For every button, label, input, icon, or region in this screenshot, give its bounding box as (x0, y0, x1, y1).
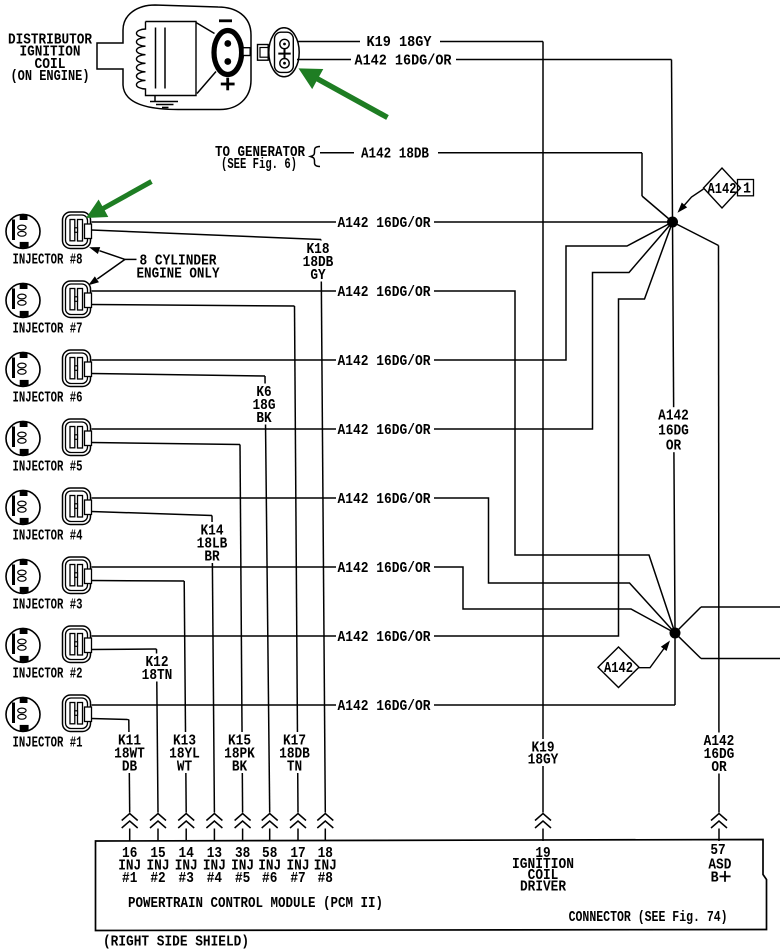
svg-text:INJECTOR #4: INJECTOR #4 (13, 529, 83, 545)
svg-text:(RIGHT SIDE SHIELD): (RIGHT SIDE SHIELD) (103, 934, 249, 950)
svg-text:A142: A142 (604, 661, 633, 677)
svg-text:BK: BK (232, 760, 248, 776)
svg-text:18TN: 18TN (142, 668, 173, 684)
svg-text:INJECTOR #2: INJECTOR #2 (13, 667, 83, 683)
svg-text:(SEE Fig. 6): (SEE Fig. 6) (221, 157, 297, 173)
svg-text:A142 16DG/OR: A142 16DG/OR (338, 216, 431, 232)
svg-text:A142: A142 (708, 182, 737, 198)
svg-text:A142 16DG/OR: A142 16DG/OR (338, 354, 431, 370)
svg-text:INJECTOR #6: INJECTOR #6 (13, 391, 83, 407)
svg-text:(ON ENGINE): (ON ENGINE) (11, 69, 90, 85)
svg-text:INJECTOR #7: INJECTOR #7 (13, 322, 83, 338)
svg-text:A142 16DG/OR: A142 16DG/OR (338, 492, 431, 508)
svg-text:#6: #6 (262, 871, 277, 887)
svg-text:INJECTOR #5: INJECTOR #5 (13, 460, 83, 476)
svg-text:INJECTOR #8: INJECTOR #8 (13, 253, 83, 269)
svg-text:OR: OR (711, 760, 727, 776)
svg-text:A142 18DB: A142 18DB (361, 146, 429, 162)
svg-text:K19 18GY: K19 18GY (367, 35, 432, 51)
svg-text:16DG: 16DG (658, 424, 689, 440)
svg-text:18GY: 18GY (528, 753, 559, 769)
svg-text:INJECTOR #1: INJECTOR #1 (13, 736, 83, 752)
svg-text:ENGINE ONLY: ENGINE ONLY (137, 266, 220, 282)
svg-text:A142 16DG/OR: A142 16DG/OR (338, 561, 431, 577)
svg-text:#8: #8 (318, 871, 333, 887)
svg-text:CONNECTOR (SEE Fig. 74): CONNECTOR (SEE Fig. 74) (569, 910, 728, 926)
svg-text:#1: #1 (122, 871, 138, 887)
svg-text:#4: #4 (207, 871, 223, 887)
svg-text:A142 16DG/OR: A142 16DG/OR (338, 285, 431, 301)
svg-text:POWERTRAIN CONTROL MODULE (PCM: POWERTRAIN CONTROL MODULE (PCM II) (128, 896, 383, 912)
svg-text:GY: GY (310, 268, 326, 284)
svg-text:TN: TN (287, 760, 302, 776)
svg-text:#7: #7 (290, 871, 305, 887)
svg-text:#5: #5 (235, 871, 250, 887)
svg-text:INJECTOR #3: INJECTOR #3 (13, 598, 83, 614)
svg-text:A142 16DG/OR: A142 16DG/OR (338, 423, 431, 439)
svg-text:DRIVER: DRIVER (520, 879, 566, 895)
svg-text:A142: A142 (658, 409, 689, 425)
svg-text:BR: BR (204, 550, 220, 566)
svg-text:A142 16DG/OR: A142 16DG/OR (355, 54, 452, 70)
svg-text:DB: DB (122, 760, 138, 776)
svg-text:#3: #3 (179, 871, 194, 887)
svg-text:OR: OR (666, 439, 682, 455)
svg-text:A142 16DG/OR: A142 16DG/OR (338, 630, 431, 646)
svg-text:WT: WT (177, 760, 193, 776)
svg-text:BK: BK (256, 411, 272, 427)
svg-text:B: B (711, 871, 719, 887)
svg-text:A142 16DG/OR: A142 16DG/OR (338, 699, 431, 715)
svg-text:#2: #2 (150, 871, 165, 887)
svg-text:1: 1 (743, 182, 751, 198)
